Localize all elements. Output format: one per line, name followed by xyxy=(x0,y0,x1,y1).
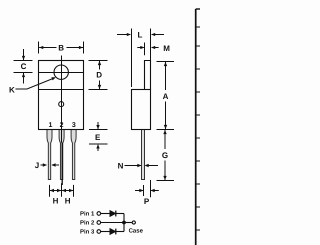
wire pin1 to diode D1 xyxy=(101,213,110,215)
wire junction to case terminal xyxy=(124,222,132,224)
dimension N xyxy=(118,161,158,170)
centerline through pin 2 xyxy=(61,130,63,143)
dimension E xyxy=(89,122,108,151)
table left edge xyxy=(196,9,200,245)
wire diode D2 to bus xyxy=(116,231,124,233)
front view vertical centerline xyxy=(61,56,63,130)
dimension M xyxy=(137,43,170,56)
svg-text:3: 3 xyxy=(72,122,76,129)
dimension C xyxy=(14,49,33,84)
dimension P xyxy=(135,180,159,206)
wire pin3 to diode D2 xyxy=(101,231,110,233)
svg-text:H: H xyxy=(53,197,59,206)
pin 1 lead xyxy=(47,130,52,180)
svg-text:C: C xyxy=(21,62,27,71)
junction dot xyxy=(122,221,126,225)
svg-text:H: H xyxy=(65,197,71,206)
svg-text:A: A xyxy=(163,92,169,101)
pin 1 terminal xyxy=(97,212,101,216)
front view divider line xyxy=(39,89,84,91)
svg-text:D: D xyxy=(96,71,102,80)
svg-text:Pin 2: Pin 2 xyxy=(80,220,95,227)
diode D1 xyxy=(110,211,116,217)
svg-text:K: K xyxy=(9,85,15,94)
svg-text:Pin 1: Pin 1 xyxy=(80,211,95,218)
pin 3 lead xyxy=(71,130,76,180)
small hole xyxy=(59,102,64,107)
diode D2 xyxy=(110,229,116,235)
mounting hole xyxy=(54,65,68,79)
side view tab xyxy=(145,61,151,90)
svg-text:E: E xyxy=(95,133,101,142)
dimension D xyxy=(89,61,108,90)
svg-text:G: G xyxy=(162,151,168,160)
dimension G xyxy=(157,130,175,181)
dimension A xyxy=(157,62,175,130)
wire diode D1 to bus xyxy=(116,213,124,215)
dimension H H xyxy=(50,183,74,205)
side view body xyxy=(132,90,151,130)
svg-text:N: N xyxy=(118,161,124,170)
pin 2 terminal xyxy=(97,221,101,225)
svg-text:P: P xyxy=(144,197,150,206)
bus wire xyxy=(123,214,125,232)
leader K xyxy=(9,77,56,94)
svg-text:1: 1 xyxy=(49,122,53,129)
front view package body xyxy=(39,61,84,130)
svg-text:Case: Case xyxy=(129,227,144,234)
side view pin xyxy=(142,130,145,180)
case terminal xyxy=(132,221,135,224)
pin 3 terminal xyxy=(97,230,101,234)
svg-text:Pin 3: Pin 3 xyxy=(80,229,95,236)
wire pin2 to junction xyxy=(101,222,124,224)
svg-text:2: 2 xyxy=(60,122,64,129)
svg-text:L: L xyxy=(138,30,143,39)
dimension J xyxy=(35,161,59,170)
table row lines xyxy=(196,26,200,28)
dimension L xyxy=(117,29,164,88)
svg-text:J: J xyxy=(35,161,39,170)
svg-text:M: M xyxy=(163,44,170,53)
pin 2 lead xyxy=(59,130,64,180)
front view hole centerline xyxy=(39,72,84,74)
svg-text:B: B xyxy=(58,43,64,52)
dimension B xyxy=(39,42,84,54)
